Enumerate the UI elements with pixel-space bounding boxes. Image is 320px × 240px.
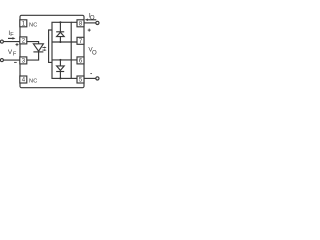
svg-text:NC: NC <box>29 78 38 84</box>
pin 2 box <box>20 37 27 45</box>
pin 3 box <box>20 57 27 65</box>
LED D1 anode wire from pin2 <box>27 42 39 44</box>
pin 8 box <box>77 20 84 28</box>
arrow IF (points right) <box>8 37 16 40</box>
terminal T3 (IO output) <box>96 21 99 24</box>
plus sign (VF+) <box>16 43 19 46</box>
LED D1 <box>33 44 43 52</box>
svg-text:F: F <box>13 52 17 58</box>
wire T1 to pin2 <box>3 41 19 43</box>
pin 6 box <box>77 57 84 65</box>
wire T2 to pin3 <box>3 59 19 61</box>
pin 5 box <box>77 76 84 84</box>
minus sign (VO-) <box>90 73 92 75</box>
terminal T4 (output return) <box>96 77 99 80</box>
light-guide bracket <box>49 30 52 62</box>
rail to pin 7 <box>52 41 77 43</box>
pin 4 box <box>20 76 27 84</box>
wire pin8 to terminal T3 <box>84 22 96 24</box>
wire array bottom to pin 5 <box>71 77 77 79</box>
photodiode array box <box>52 22 71 78</box>
light emission arrows <box>42 47 46 52</box>
node dot PD2 bottom <box>59 77 61 79</box>
photodiode PD2 (bottom, cathode down) <box>56 60 64 79</box>
node dot PD1 bottom <box>59 41 61 43</box>
terminal T1 (IF input) <box>0 40 3 43</box>
minus sign (VF-) <box>14 61 17 63</box>
node dot PD1 top <box>59 21 61 23</box>
wire pin5 to terminal T4 <box>84 77 96 79</box>
svg-text:F: F <box>10 32 14 38</box>
plus sign (VO+) <box>88 29 91 32</box>
node dot PD2 top <box>59 59 61 61</box>
pin 7 box <box>77 37 84 45</box>
svg-text:NC: NC <box>29 23 38 29</box>
wire array top to pin 8 <box>71 21 77 23</box>
svg-text:O: O <box>92 51 97 57</box>
terminal T2 (input return) <box>0 59 3 62</box>
arrow IO (points left) <box>85 19 97 22</box>
rail to pin 6 <box>52 59 77 61</box>
pin 1 box <box>20 20 27 28</box>
LED cathode wire to pin3 <box>27 52 39 60</box>
svg-text:O: O <box>90 16 95 22</box>
IC body U1 <box>20 15 84 87</box>
photodiode PD1 (top, cathode up) <box>56 22 64 42</box>
